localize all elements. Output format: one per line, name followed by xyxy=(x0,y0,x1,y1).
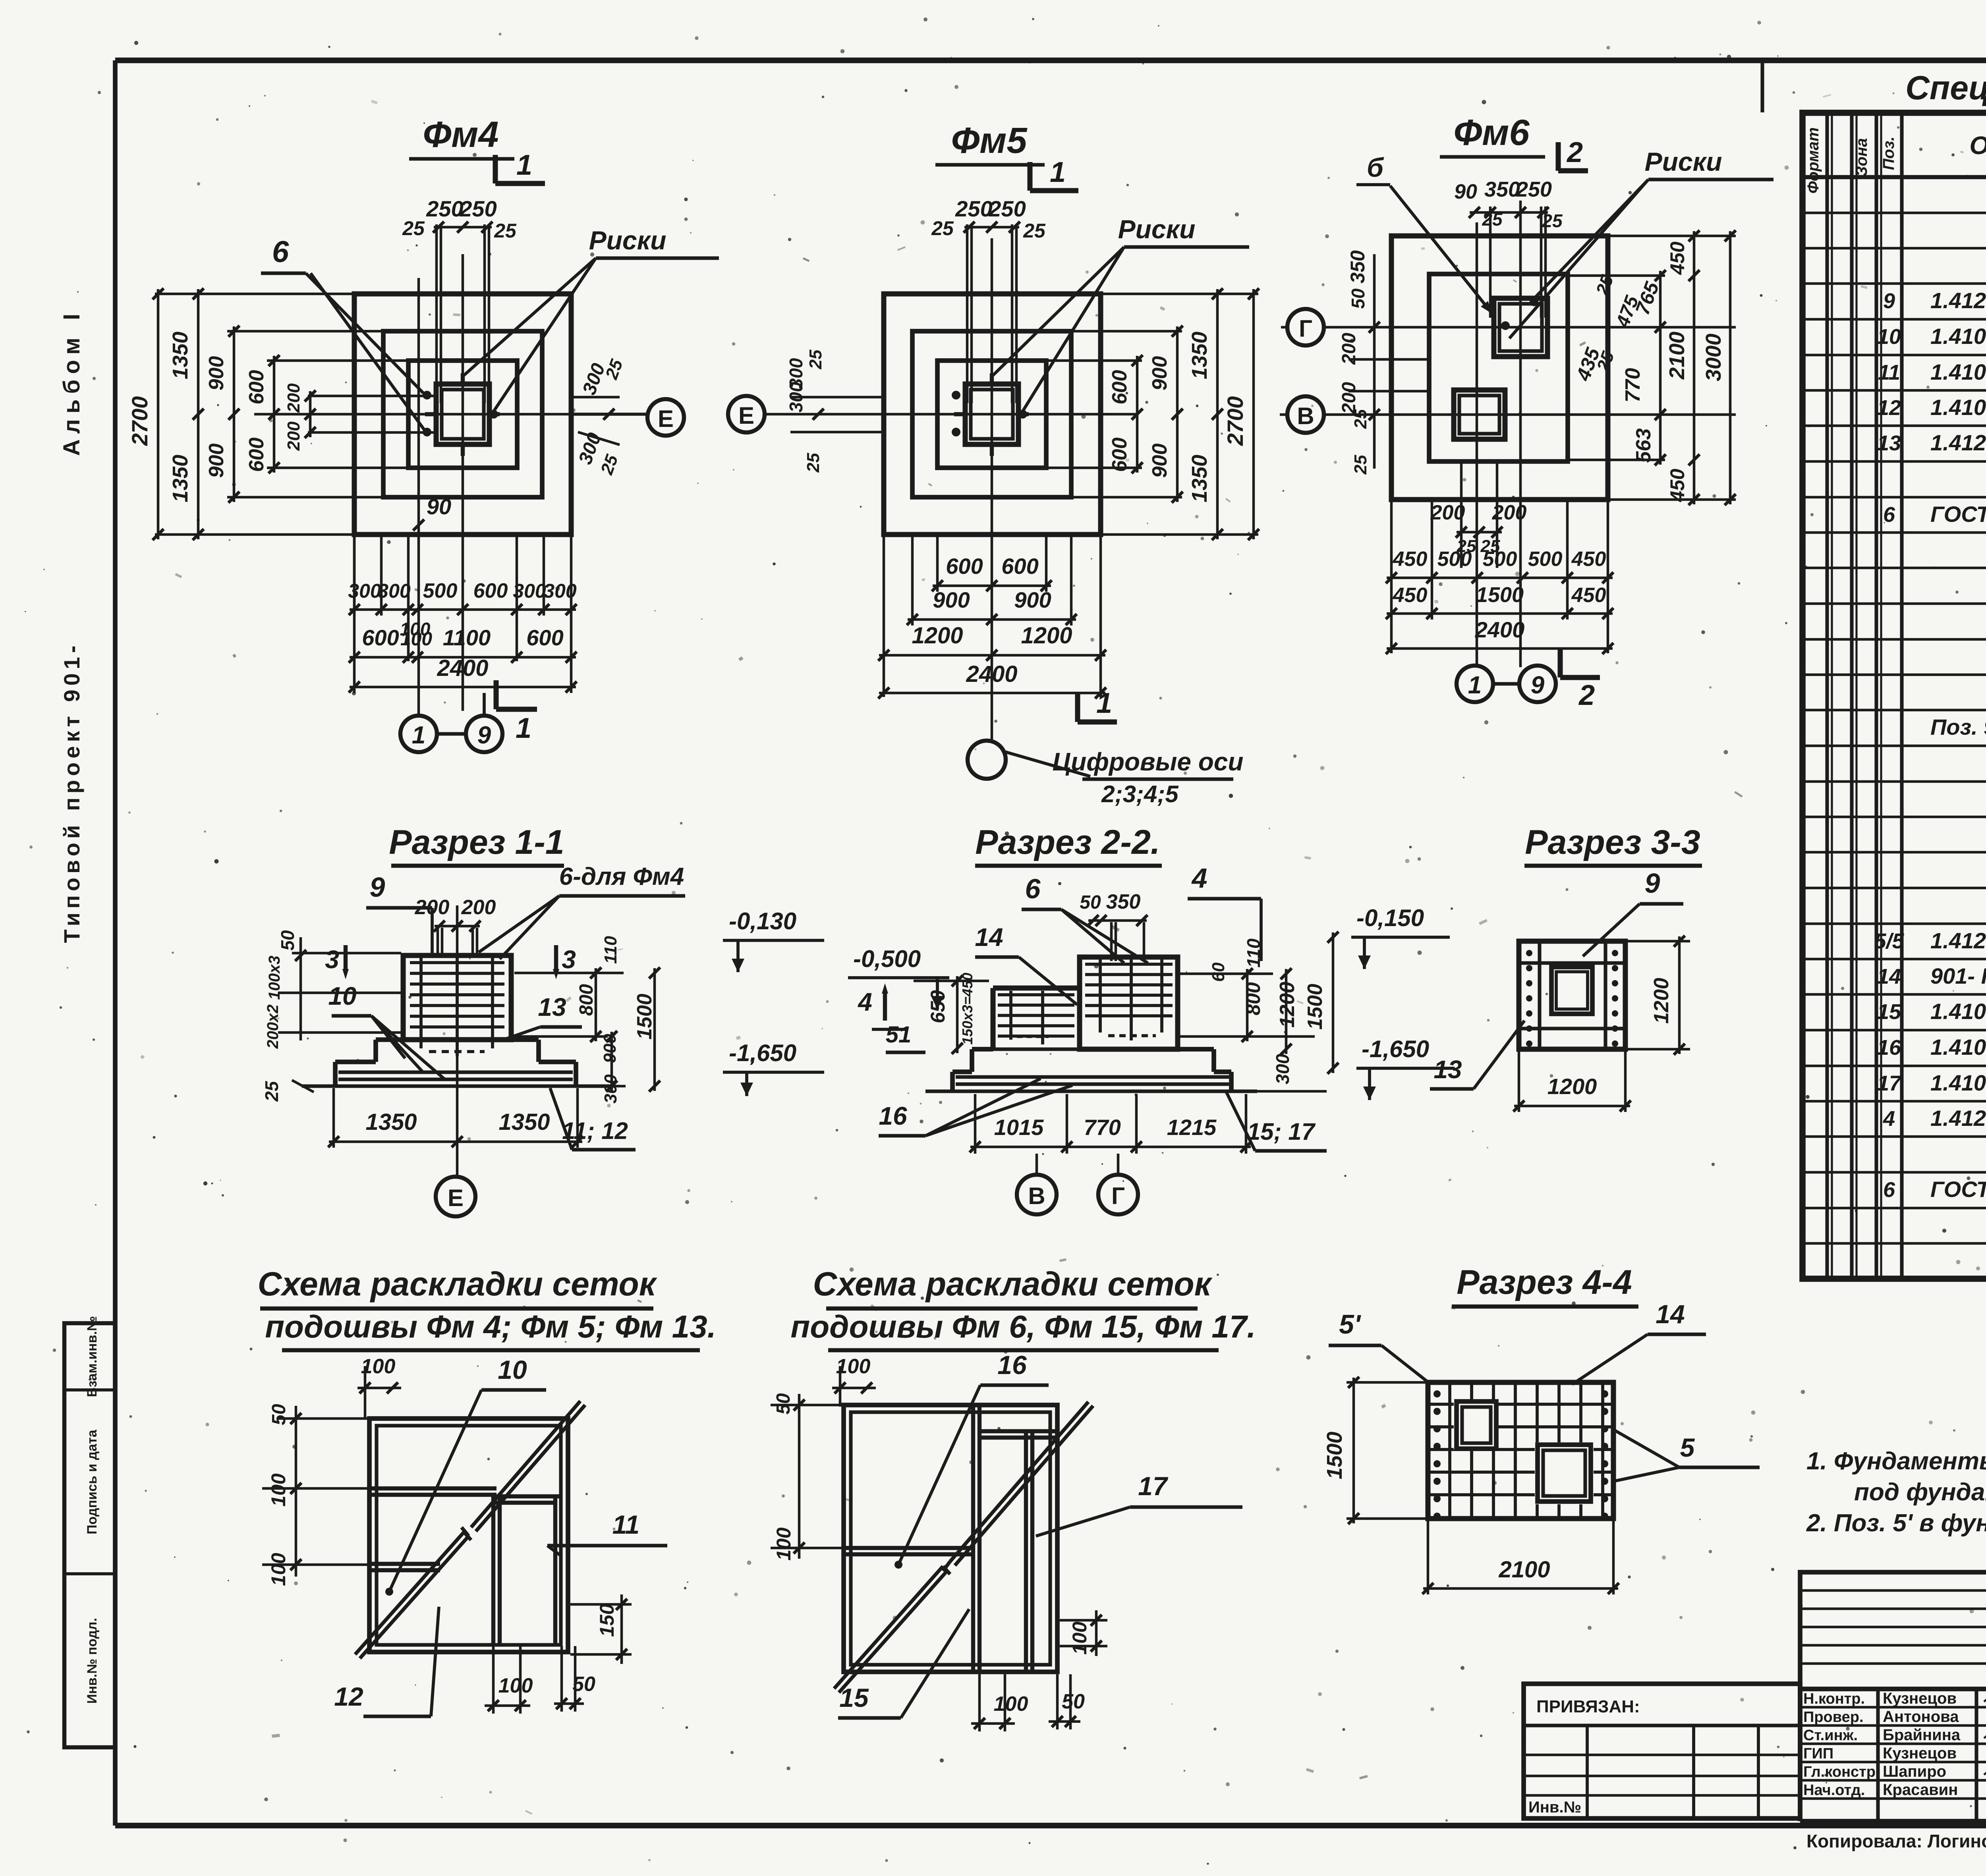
svg-text:600: 600 xyxy=(1001,554,1038,579)
notes line 1 xyxy=(1806,1448,1986,1475)
section 1-1 right dims xyxy=(514,936,660,1103)
plan Фм5 column risk marks xyxy=(954,373,1029,456)
stamp kopirovala text xyxy=(1806,1831,1986,1851)
svg-text:1350: 1350 xyxy=(1188,332,1211,379)
plan Фм6 lower column section xyxy=(1454,390,1505,439)
section 4-4 mesh grid verticals xyxy=(1450,1384,1603,1516)
svg-text:50: 50 xyxy=(1062,1690,1085,1713)
svg-text:10: 10 xyxy=(328,982,356,1010)
section 4-4 title xyxy=(1452,1263,1638,1307)
plan Фм6 section flag 2 top xyxy=(1558,137,1588,171)
plan Фм6 right dim line 450 2100 450 xyxy=(1609,230,1736,505)
section 2-2 left block mesh xyxy=(998,991,1074,1044)
svg-text:9: 9 xyxy=(1531,672,1545,699)
section 3-3 title xyxy=(1524,823,1702,866)
plan Фм5 middle step square xyxy=(912,331,1071,497)
section 2-2 base slab xyxy=(952,1072,1231,1091)
svg-text:10: 10 xyxy=(498,1355,527,1384)
svg-text:1215: 1215 xyxy=(1167,1115,1217,1140)
svg-text:3: 3 xyxy=(325,945,339,974)
section 3-3 label 13 with leader xyxy=(1430,1021,1524,1089)
svg-text:100: 100 xyxy=(400,629,432,650)
label Подпись и дата xyxy=(85,1429,100,1534)
plan Фм4 right small dims 300 25 xyxy=(574,357,627,477)
section 3-3 outer square xyxy=(1519,941,1625,1049)
label Взам.инв.№ xyxy=(85,1316,100,1397)
plan Фм4 left dimension chain 600 600 xyxy=(245,355,409,473)
plan Фм5 outer slab square xyxy=(884,294,1101,535)
svg-text:Фм6: Фм6 xyxy=(1453,112,1530,153)
section 2-2 slab mesh lines xyxy=(956,1077,1229,1084)
plan Фм6 bottom dim chain 450 1500 450 xyxy=(1386,583,1613,619)
svg-text:16: 16 xyxy=(879,1102,907,1130)
plan Фм5 bottom dim chain 900 900 xyxy=(907,537,1077,625)
svg-text:25: 25 xyxy=(261,1081,282,1102)
section 2-2 axis circle Г xyxy=(1098,1154,1138,1214)
plan Фм5 centre axis vertical xyxy=(991,238,993,739)
plan Фм5 right dimension chain 600 600 xyxy=(1047,355,1143,473)
svg-text:6: 6 xyxy=(1025,873,1041,904)
section 1-1 axis circle Е xyxy=(436,1177,475,1216)
svg-text:16: 16 xyxy=(1877,1036,1901,1060)
svg-text:25: 25 xyxy=(931,217,954,239)
svg-text:1: 1 xyxy=(516,712,531,744)
mesh layout 2 right dim 100 xyxy=(1060,1610,1107,1656)
svg-text:Инв.№: Инв.№ xyxy=(1528,1799,1581,1816)
svg-text:25: 25 xyxy=(1023,220,1046,242)
svg-text:2400: 2400 xyxy=(437,655,488,681)
svg-text:450: 450 xyxy=(1571,548,1606,571)
stamp privyazan box xyxy=(1524,1684,1800,1818)
section 1-1 step tier xyxy=(376,1040,539,1062)
svg-text:Формат: Формат xyxy=(1804,127,1822,194)
svg-text:Кузнецов: Кузнецов xyxy=(1883,1745,1957,1762)
section 1-1 elevation -0.130 xyxy=(723,908,824,972)
svg-text:600: 600 xyxy=(473,579,508,602)
plan Фм6 bolt dots xyxy=(1501,297,1538,330)
svg-text:150: 150 xyxy=(596,1604,618,1637)
svg-text:60: 60 xyxy=(1209,962,1228,982)
section 1-1 anchor bolts above column xyxy=(438,928,477,957)
svg-text:1350: 1350 xyxy=(1188,455,1211,502)
plan Фм4 left dimension 2700 xyxy=(127,288,355,540)
svg-text:Е: Е xyxy=(738,402,754,429)
svg-text:100: 100 xyxy=(994,1693,1028,1716)
svg-text:14: 14 xyxy=(975,923,1003,952)
svg-text:2700: 2700 xyxy=(127,396,152,446)
plan Фм6 axis horizontal В xyxy=(1323,413,1736,416)
svg-text:2100: 2100 xyxy=(1498,1557,1550,1583)
svg-text:17: 17 xyxy=(1138,1471,1169,1501)
svg-text:25: 25 xyxy=(806,349,825,369)
svg-text:770: 770 xyxy=(1621,368,1644,403)
svg-text:Обозначение: Обозначение xyxy=(1969,131,1986,160)
plan Фм6 axis circle Г left xyxy=(1287,309,1324,345)
plan Фм4 outer slab square xyxy=(354,294,571,535)
svg-text:300: 300 xyxy=(786,358,806,388)
svg-text:10: 10 xyxy=(1877,325,1901,349)
svg-text:100: 100 xyxy=(1068,1621,1091,1655)
svg-text:1500: 1500 xyxy=(633,994,656,1040)
section 1-1 ground line xyxy=(302,1084,612,1088)
plan Фм4 inner step square xyxy=(408,361,517,468)
section 4-4 column hole 2 xyxy=(1535,1442,1594,1504)
section 3-3 label 9 with leader xyxy=(1583,868,1683,956)
plan Фм4 dim 90 note xyxy=(413,494,451,531)
svg-text:90: 90 xyxy=(1454,180,1477,203)
section 2-2 label 51 xyxy=(886,1022,925,1052)
plan Фм5 section flag 1 top xyxy=(1030,156,1078,191)
mesh layout 1 label 12 xyxy=(334,1607,439,1716)
svg-text:25: 25 xyxy=(804,453,823,473)
svg-text:25: 25 xyxy=(1351,409,1370,429)
svg-text:Копировала: Логинова: Копировала: Логинова xyxy=(1806,1831,1986,1851)
section 2-2 left block outline xyxy=(993,988,1080,1049)
section 4-4 column hole 1 xyxy=(1454,1399,1498,1449)
notes line 3 xyxy=(1806,1509,1986,1537)
plan Фм6 inner step rect xyxy=(1429,274,1568,461)
section 1-1 left dims xyxy=(264,930,401,1049)
svg-text:подошвы Фм 6, Фм 15, Фм 17.: подошвы Фм 6, Фм 15, Фм 17. xyxy=(790,1309,1256,1344)
specification table outer border xyxy=(1802,113,1986,1279)
section 1-1 label 13 with leader xyxy=(504,993,582,1040)
svg-text:Ст.инж.: Ст.инж. xyxy=(1803,1727,1858,1744)
svg-text:ГОСТ 24379.1-80: ГОСТ 24379.1-80 xyxy=(1930,1177,1986,1202)
section 1-1 centre axis xyxy=(456,905,459,1176)
svg-text:500: 500 xyxy=(1528,548,1563,571)
svg-text:Схема раскладки сеток: Схема раскладки сеток xyxy=(813,1265,1213,1303)
mesh layout 1 title line 2 xyxy=(265,1309,716,1350)
section 1-1 column mesh verticals xyxy=(421,958,493,1056)
svg-text:1: 1 xyxy=(516,149,532,181)
section 1-1 label 10 with leaders xyxy=(328,982,445,1079)
svg-text:ГИП: ГИП xyxy=(1803,1745,1833,1762)
fold mark line top xyxy=(1760,62,1764,112)
svg-text:500: 500 xyxy=(1483,548,1517,571)
svg-text:500: 500 xyxy=(1437,548,1472,571)
section 1-1 column outline xyxy=(403,955,511,1040)
svg-text:1.410-2 Вып.1: 1.410-2 Вып.1 xyxy=(1930,1035,1986,1060)
plan Фм6 axis circle В left xyxy=(1287,396,1324,433)
svg-text:600: 600 xyxy=(526,625,563,650)
svg-text:200: 200 xyxy=(461,896,496,919)
svg-text:11: 11 xyxy=(1878,361,1900,384)
svg-text:900: 900 xyxy=(1014,587,1051,612)
section 2-2 label 16 with leaders xyxy=(879,1079,1072,1136)
svg-text:250: 250 xyxy=(1516,178,1552,201)
svg-text:1.412-1/77 Вып.3: 1.412-1/77 Вып.3 xyxy=(1930,1106,1986,1131)
specification table contents xyxy=(1874,179,1986,1273)
mesh layout 2 label 17 xyxy=(1036,1471,1242,1536)
svg-text:25: 25 xyxy=(1351,455,1370,475)
svg-text:В: В xyxy=(1028,1183,1045,1209)
section 1-1 title xyxy=(389,823,564,866)
svg-text:-1,650: -1,650 xyxy=(1362,1036,1429,1062)
svg-text:-1,650: -1,650 xyxy=(729,1040,796,1066)
svg-text:600: 600 xyxy=(362,625,399,650)
svg-text:563: 563 xyxy=(1632,428,1655,463)
svg-text:100: 100 xyxy=(498,1674,533,1697)
svg-text:Брайнина: Брайнина xyxy=(1883,1726,1961,1744)
svg-text:Риски: Риски xyxy=(1645,147,1722,176)
specification table column lines xyxy=(1827,113,1986,1279)
svg-text:12: 12 xyxy=(334,1682,363,1711)
svg-text:600: 600 xyxy=(1108,438,1131,472)
plan Фм4 axis circle 1 xyxy=(400,716,437,752)
svg-text:2100: 2100 xyxy=(1665,332,1689,380)
svg-text:250: 250 xyxy=(955,196,992,221)
svg-text:15; 17: 15; 17 xyxy=(1247,1118,1316,1145)
plan Фм4 title xyxy=(409,114,514,159)
svg-text:под фундаментные балки.: под фундаментные балки. xyxy=(1854,1478,1986,1506)
plan Фм6 bottom dim chain 450 500x3 450 xyxy=(1386,502,1613,653)
plan Фм4 anchor bolt dots xyxy=(423,391,498,436)
plan Фм6 right dims cluster texts xyxy=(1572,272,1663,463)
plan Фм6 outer slab rect xyxy=(1391,236,1608,500)
left margin stamp column xyxy=(64,1323,115,1747)
svg-text:Е: Е xyxy=(658,405,674,432)
svg-text:Поз. 9,10,11,12,13 см.по Фм4.: Поз. 9,10,11,12,13 см.по Фм4. xyxy=(1930,714,1986,739)
svg-text:1.410-2 Вып.1: 1.410-2 Вып.1 xyxy=(1930,395,1986,420)
svg-text:600: 600 xyxy=(245,438,268,472)
svg-text:6: 6 xyxy=(1883,503,1895,527)
svg-text:1200: 1200 xyxy=(1547,1074,1597,1099)
mesh layout 2 bottom dim 50 xyxy=(1049,1674,1085,1729)
svg-text:1. Фундаменты Фм4, Фм6 изготов: 1. Фундаменты Фм4, Фм6 изготовить совмес… xyxy=(1806,1448,1986,1475)
svg-text:1500: 1500 xyxy=(1476,583,1524,607)
svg-text:1500: 1500 xyxy=(1323,1432,1347,1479)
svg-text:Риски: Риски xyxy=(1118,214,1196,244)
stamp privyazan label xyxy=(1536,1697,1640,1716)
plan Фм4 centre axis vertical xyxy=(462,254,464,711)
plan Фм6 axis circle 9 xyxy=(1493,666,1556,702)
svg-text:900: 900 xyxy=(205,356,228,391)
svg-text:13: 13 xyxy=(1433,1055,1462,1084)
svg-text:50: 50 xyxy=(269,1404,290,1425)
svg-text:2700: 2700 xyxy=(1223,396,1248,446)
svg-text:450: 450 xyxy=(1393,584,1428,607)
svg-text:2400: 2400 xyxy=(1475,617,1525,642)
section 4-4 label 5' with leader xyxy=(1329,1309,1430,1384)
svg-text:200: 200 xyxy=(284,421,303,451)
svg-text:1350: 1350 xyxy=(168,455,192,502)
plan Фм5 left small dims xyxy=(786,349,886,473)
section 4-4 left dim 1500 xyxy=(1323,1377,1426,1524)
mesh 16 inner vertical wires xyxy=(973,1405,979,1672)
svg-text:15: 15 xyxy=(1877,1000,1901,1024)
svg-text:Красавин: Красавин xyxy=(1883,1781,1958,1799)
svg-text:1200: 1200 xyxy=(1021,623,1072,648)
plan Фм5 right dimension chain 900 900 xyxy=(1072,326,1183,503)
specification table header texts xyxy=(1804,122,1986,193)
section 2-2 label 15 17 xyxy=(1225,1090,1327,1151)
svg-text:90: 90 xyxy=(427,494,451,519)
svg-text:Разрез 4-4: Разрез 4-4 xyxy=(1457,1263,1632,1301)
svg-text:Нач.отд.: Нач.отд. xyxy=(1803,1782,1865,1799)
svg-text:Фм4: Фм4 xyxy=(423,114,498,155)
svg-text:350: 350 xyxy=(1106,890,1141,913)
plan Фм6 left dims cluster xyxy=(1339,250,1430,475)
svg-text:6: 6 xyxy=(272,235,289,269)
section 2-2 label 6 with leaders xyxy=(1022,873,1148,963)
svg-text:2. Поз. 5' в фундаменте Фм 6 у: 2. Поз. 5' в фундаменте Фм 6 укоротить н… xyxy=(1806,1509,1986,1537)
section 1-1 label 6-для Фм4 xyxy=(479,863,685,959)
section 2-2 elevation -0,500 xyxy=(848,946,949,1009)
svg-text:800: 800 xyxy=(1242,982,1264,1015)
svg-text:11: 11 xyxy=(612,1510,640,1539)
svg-text:-0,130: -0,130 xyxy=(729,908,796,934)
svg-text:1: 1 xyxy=(1468,672,1482,699)
mesh layout 1 label 11 xyxy=(547,1510,667,1555)
section 2-2 bottom dim 1015 770 1215 xyxy=(970,1094,1252,1154)
svg-text:ПРИВЯЗАН:: ПРИВЯЗАН: xyxy=(1536,1697,1640,1716)
vertical text Типовой проект 901- xyxy=(59,642,84,943)
plan Фм4 column risk marks xyxy=(425,373,500,456)
plan Фм5 label Цифровые оси xyxy=(1005,747,1244,807)
svg-text:1: 1 xyxy=(1050,156,1066,188)
plan Фм5 bottom dim chain 600 600 xyxy=(932,537,1052,592)
section 3-3 stakan inner square xyxy=(1551,967,1592,1014)
plan Фм4 axis circle Е right xyxy=(574,399,684,436)
mesh 16 outer square xyxy=(844,1405,1057,1672)
plan Фм6 axis horizontal Г xyxy=(1323,326,1736,329)
svg-text:200x2: 200x2 xyxy=(264,1004,282,1049)
svg-text:25: 25 xyxy=(494,220,517,242)
svg-text:1350: 1350 xyxy=(365,1109,417,1135)
specification table header row line xyxy=(1802,175,1986,179)
plan Фм6 upper column axis vertical xyxy=(1519,201,1522,667)
svg-text:900: 900 xyxy=(933,587,970,612)
label Инв.№ подл. xyxy=(85,1618,100,1704)
svg-text:150x3=450: 150x3=450 xyxy=(959,973,976,1044)
section 2-2 step tier xyxy=(972,1049,1214,1072)
section 1-1 elevation -1.650 xyxy=(723,1040,824,1096)
plan Фм5 top dimension 250 250 xyxy=(931,196,1046,242)
plan Фм4 section flag 1 bottom xyxy=(496,680,537,744)
svg-text:Подпись и дата: Подпись и дата xyxy=(85,1429,100,1534)
mesh 2 diagonal break line xyxy=(834,1402,1093,1693)
mesh layout 1 top dim 100 xyxy=(357,1355,401,1420)
svg-text:9: 9 xyxy=(1645,868,1660,899)
svg-text:Н.контр.: Н.контр. xyxy=(1803,1691,1865,1707)
svg-text:5: 5 xyxy=(1680,1433,1695,1462)
mesh layout 1 title line 1 xyxy=(258,1265,657,1309)
svg-text:Инв.№ подл.: Инв.№ подл. xyxy=(85,1618,100,1704)
svg-text:1.412-1/77 Вып.3: 1.412-1/77 Вып.3 xyxy=(1930,430,1986,455)
svg-text:1350: 1350 xyxy=(168,332,192,379)
stamp revision grid xyxy=(1800,1572,1986,1689)
mesh layout 1 bottom dim 100 xyxy=(485,1646,533,1714)
mesh layout 2 label 15 xyxy=(838,1609,969,1718)
stamp signatures xyxy=(1984,1693,1986,1793)
svg-text:200: 200 xyxy=(284,383,303,413)
svg-text:14: 14 xyxy=(1656,1299,1685,1329)
section 4-4 rebar dots left xyxy=(1433,1390,1441,1520)
svg-text:1: 1 xyxy=(412,722,425,749)
svg-text:Г: Г xyxy=(1111,1183,1125,1209)
plan Фм4 axis line 1 vertical xyxy=(417,278,420,715)
section 2-2 axis circle В xyxy=(1017,1154,1057,1214)
svg-text:901- КЖИ; С1: 901- КЖИ; С1 xyxy=(1930,963,1986,988)
svg-text:Антонова: Антонова xyxy=(1883,1708,1959,1725)
plan Фм6 axis circle 1 xyxy=(1457,666,1493,702)
section 3-3 right dim 1200 xyxy=(1628,936,1690,1055)
svg-text:350: 350 xyxy=(1484,178,1520,201)
plan Фм4 centre axis horizontal xyxy=(254,413,647,416)
section 2-2 label 14 with leader xyxy=(975,923,1077,1005)
svg-text:51: 51 xyxy=(886,1022,912,1048)
svg-text:6: 6 xyxy=(1883,1178,1895,1202)
svg-text:3000: 3000 xyxy=(1702,334,1725,381)
plan Фм4 top dimension 250 250 xyxy=(402,196,517,242)
section 4-4 label 5 with leaders xyxy=(1613,1430,1760,1481)
notes line 2 xyxy=(1854,1478,1986,1506)
mesh layout 2 title line 1 xyxy=(813,1265,1213,1309)
svg-text:11; 12: 11; 12 xyxy=(562,1117,628,1144)
svg-text:1: 1 xyxy=(1096,687,1112,719)
plan Фм5 bottom axis circle xyxy=(968,741,1006,779)
svg-text:25: 25 xyxy=(1482,209,1503,230)
section 3-3 left dim 1500 xyxy=(1304,932,1339,1074)
svg-text:14: 14 xyxy=(1877,965,1901,988)
plan Фм4 left dimension chain 900 900 xyxy=(205,326,384,503)
plan Фм4 label Риски with leader xyxy=(464,226,719,413)
svg-text:13: 13 xyxy=(538,993,566,1021)
svg-text:200: 200 xyxy=(1430,501,1465,524)
section 4-4 slab rect xyxy=(1428,1382,1613,1519)
svg-text:1200: 1200 xyxy=(912,623,963,648)
mesh layout 2 label 16 xyxy=(894,1350,1049,1569)
mesh diagonal break line xyxy=(355,1401,585,1658)
plan Фм4 label 6 with leader xyxy=(261,235,424,430)
svg-text:250: 250 xyxy=(426,196,463,221)
svg-text:Цифровые оси: Цифровые оси xyxy=(1052,747,1243,776)
plan Фм5 bottom dim chain 1200 1200 xyxy=(878,537,1106,697)
plan Фм6 title xyxy=(1440,112,1545,157)
svg-text:50: 50 xyxy=(1348,288,1368,309)
svg-text:Е: Е xyxy=(448,1185,464,1211)
svg-text:1.412-1/77 Вып.3: 1.412-1/77 Вып.3 xyxy=(1930,288,1986,313)
svg-text:-0,150: -0,150 xyxy=(1356,905,1424,931)
svg-text:9: 9 xyxy=(1883,289,1895,313)
svg-text:2: 2 xyxy=(1578,679,1595,711)
svg-text:12: 12 xyxy=(1877,396,1901,420)
svg-text:Гл.констр.: Гл.констр. xyxy=(1803,1764,1880,1780)
stamp staff column lines xyxy=(1800,1689,1986,1821)
svg-text:450: 450 xyxy=(1666,469,1688,502)
svg-text:4: 4 xyxy=(1883,1107,1895,1131)
svg-text:ГОСТ 24379.1-80: ГОСТ 24379.1-80 xyxy=(1930,502,1986,527)
plan Фм4 section flag 1 top xyxy=(495,149,545,183)
svg-text:16: 16 xyxy=(997,1350,1027,1380)
svg-text:Зона: Зона xyxy=(1853,138,1870,177)
plan Фм5 title xyxy=(935,120,1045,165)
plan Фм5 bottom dim 2400 xyxy=(878,661,1106,699)
plan Фм4 axis circle 9 xyxy=(437,693,502,752)
plan Фм5 axis connector lines to shared circles xyxy=(1280,327,1287,415)
svg-text:2: 2 xyxy=(1566,137,1583,168)
svg-text:Фм5: Фм5 xyxy=(951,120,1028,161)
svg-text:Разрез 1-1: Разрез 1-1 xyxy=(389,823,564,861)
svg-text:300: 300 xyxy=(1272,1054,1293,1084)
section 2-2 anchor bolts above column xyxy=(1111,922,1144,961)
svg-text:100: 100 xyxy=(267,1473,290,1507)
svg-text:1100: 1100 xyxy=(443,625,491,650)
svg-text:4: 4 xyxy=(1191,863,1207,894)
section 2-2 label 4 with leader xyxy=(1188,863,1261,961)
plan Фм6 bottom dim 2400 xyxy=(1386,617,1613,654)
svg-text:500: 500 xyxy=(423,579,458,602)
